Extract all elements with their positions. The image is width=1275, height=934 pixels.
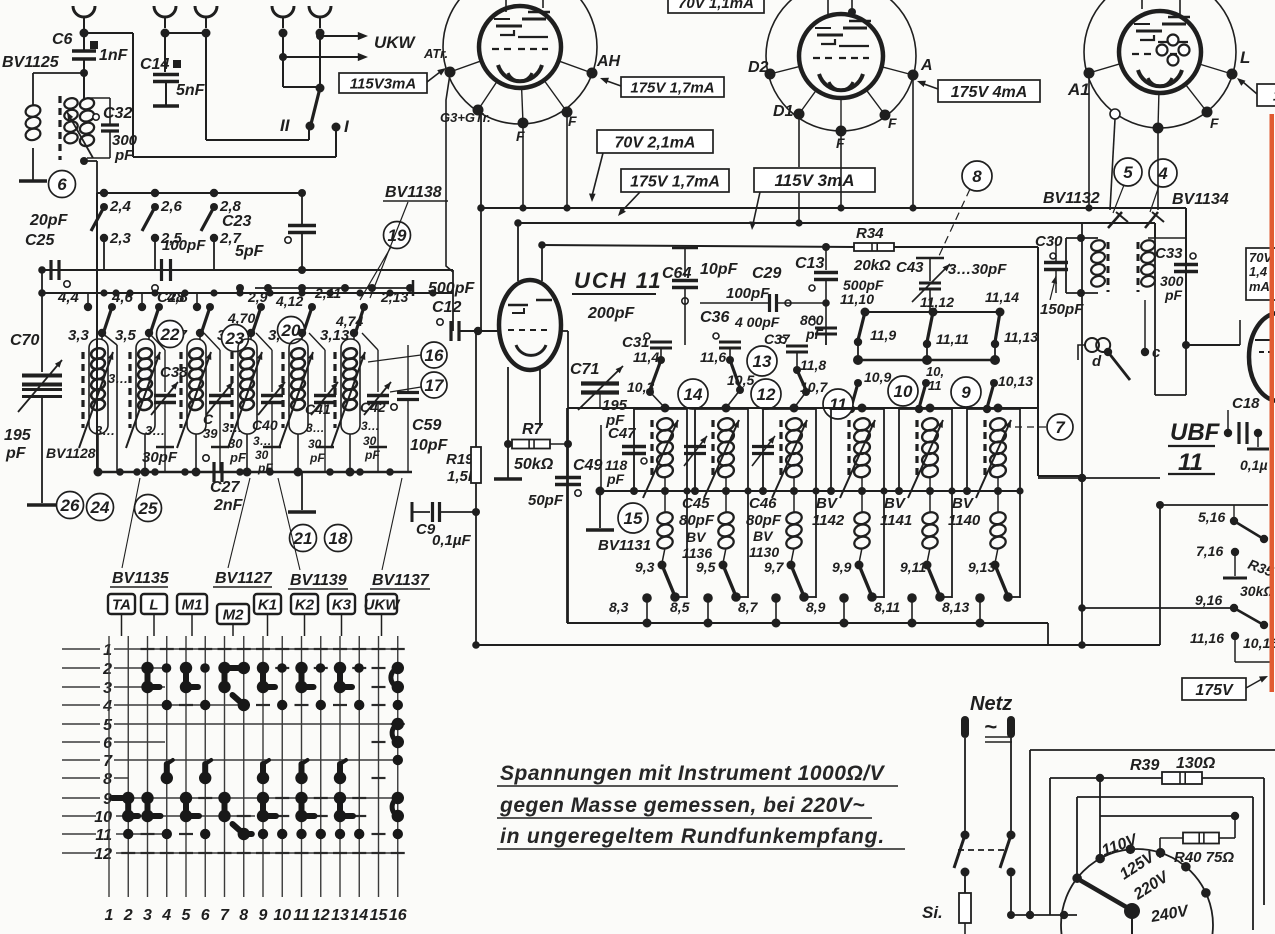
- switch arm band I/II: [311, 88, 320, 124]
- wire x1160 down: [1159, 505, 1161, 645]
- ground stub mid: [301, 472, 303, 510]
- svg-text:11,12: 11,12: [920, 294, 954, 310]
- svg-text:C70: C70: [10, 332, 39, 349]
- matrix contact group bottom col3: [141, 792, 153, 804]
- svg-text:4: 4: [1157, 164, 1168, 183]
- wire UKW arrow 2: [279, 53, 287, 61]
- wire tube1 F2 down: [566, 112, 568, 208]
- matrix contact group bottom UKW: [392, 792, 404, 804]
- arrow 70V2,1 down: [592, 153, 603, 196]
- arrow box to AH pin: [607, 81, 621, 86]
- svg-text:17: 17: [425, 376, 445, 395]
- wire UKW arrow 1: [316, 32, 324, 40]
- svg-text:0,1µ: 0,1µ: [1240, 457, 1268, 473]
- wire 2,7 to bus B: [213, 238, 215, 270]
- wire 11,9 row lower: [858, 359, 995, 362]
- switch 3,5: [155, 303, 163, 311]
- ground below coil: [19, 179, 47, 183]
- svg-text:30: 30: [255, 448, 269, 462]
- svg-text:21: 21: [293, 529, 313, 548]
- svg-text:8,3: 8,3: [609, 599, 629, 615]
- svg-text:K2: K2: [295, 597, 315, 614]
- matrix contact group top col3: [141, 662, 153, 674]
- svg-text:UKW: UKW: [364, 597, 402, 614]
- svg-text:C33: C33: [1155, 245, 1183, 262]
- svg-text:C23: C23: [222, 213, 251, 230]
- svg-text:11,11: 11,11: [936, 331, 969, 347]
- switch contact 2,6: [151, 189, 159, 197]
- svg-text:3…: 3…: [145, 423, 165, 438]
- svg-text:11,8: 11,8: [800, 357, 826, 373]
- leader BV1135: [122, 478, 140, 568]
- svg-text:175V: 175V: [1195, 682, 1234, 699]
- svg-text:C13: C13: [795, 255, 824, 272]
- wire caps down: [660, 348, 662, 360]
- svg-text:Spannungen mit Instrument 1: Spannungen mit Instrument 1000Ω/V: [500, 762, 886, 785]
- svg-text:L: L: [149, 597, 158, 614]
- wire antenna1 to C6: [83, 28, 85, 52]
- capacitor C12 series: [437, 319, 443, 325]
- box 115V 3mA second: [754, 168, 875, 192]
- osc branch BV 1142: [858, 404, 867, 413]
- ground below C70: [27, 503, 57, 507]
- svg-text:C32: C32: [103, 105, 132, 122]
- osc branch BV 1136: [722, 404, 731, 413]
- svg-text:C49: C49: [573, 457, 602, 474]
- wire tube UBF stems: [1239, 320, 1241, 345]
- svg-text:20pF: 20pF: [29, 212, 69, 229]
- svg-text:BV1138: BV1138: [385, 184, 442, 201]
- svg-text:15: 15: [370, 907, 389, 924]
- leader 7 dashed: [1010, 426, 1046, 428]
- wire antenna4 down x283: [282, 33, 284, 87]
- circled 11: [823, 389, 853, 419]
- circled 7: [1047, 414, 1073, 440]
- svg-text:pF: pF: [229, 450, 247, 465]
- svg-text:1141: 1141: [880, 512, 912, 529]
- svg-text:3,5: 3,5: [115, 327, 137, 344]
- circled 10: [888, 376, 918, 406]
- trimmer cap C41: [309, 333, 325, 350]
- svg-text:10,: 10,: [926, 364, 944, 379]
- svg-text:11,9: 11,9: [870, 327, 896, 343]
- svg-text:G3+GTr.: G3+GTr.: [440, 110, 491, 125]
- svg-text:L: L: [1240, 48, 1250, 67]
- leader BV1138: [370, 202, 408, 298]
- svg-text:175V 4mA: 175V 4mA: [951, 84, 1028, 101]
- switch 3,7: [206, 303, 214, 311]
- wire tube3 A1 down: [1088, 73, 1090, 208]
- svg-text:C71: C71: [570, 361, 599, 378]
- band label box TA: [108, 594, 135, 614]
- svg-text:BV1139: BV1139: [290, 572, 347, 589]
- switch arm 2,5: [142, 207, 155, 231]
- svg-text:130Ω: 130Ω: [1176, 755, 1216, 772]
- svg-text:II: II: [280, 116, 291, 135]
- matrix UKW rows5-6 group: [392, 718, 404, 730]
- svg-text:80pF: 80pF: [679, 512, 715, 529]
- circled 19: [384, 222, 411, 249]
- svg-text:pF: pF: [5, 445, 27, 462]
- wire II-path horizontal y140: [206, 139, 309, 141]
- wire x1030: [1029, 750, 1031, 915]
- switch arm 2,7: [201, 207, 214, 231]
- svg-text:2nF: 2nF: [213, 497, 244, 514]
- svg-text:7: 7: [220, 907, 230, 924]
- mid bus y491: [600, 490, 1022, 492]
- svg-text:BV1131: BV1131: [598, 537, 651, 554]
- node I: [332, 123, 341, 132]
- wire BV1134 frame: [1154, 238, 1156, 395]
- matrix contact group bottom col9: [257, 792, 269, 804]
- matrix contact group top M2: [218, 662, 230, 674]
- svg-text:ATr.: ATr.: [423, 46, 448, 61]
- svg-text:3…: 3…: [253, 434, 272, 448]
- circled 25: [135, 495, 162, 522]
- switch arms 10,3 10,5 10,7: [650, 360, 661, 390]
- svg-text:26: 26: [60, 496, 80, 515]
- trimmer cap branch3 C46: [752, 445, 774, 448]
- svg-text:c: c: [1152, 344, 1161, 361]
- wire mains down left: [964, 870, 966, 893]
- svg-text:14: 14: [350, 907, 368, 924]
- matrix contact group bottom M2: [218, 792, 230, 804]
- svg-text:5nF: 5nF: [176, 82, 206, 99]
- svg-text:BV1132: BV1132: [1043, 190, 1100, 207]
- leader 19: [360, 247, 391, 300]
- matrix column lines: [108, 636, 110, 897]
- svg-text:5: 5: [103, 717, 113, 734]
- antenna A5: [309, 6, 331, 17]
- circled 24: [87, 494, 114, 521]
- wire frame y223: [518, 222, 1155, 224]
- matrix row4 dots: [162, 700, 172, 710]
- svg-text:5,16: 5,16: [1198, 509, 1225, 525]
- svg-text:C42: C42: [360, 399, 386, 415]
- svg-text:500pF: 500pF: [428, 280, 475, 297]
- svg-text:8,9: 8,9: [806, 599, 826, 615]
- band label box K2: [291, 594, 318, 614]
- svg-text:BV: BV: [884, 495, 907, 512]
- tube UBF11 envelope right edge: [1249, 313, 1275, 401]
- svg-text:C59: C59: [412, 417, 441, 434]
- switch 3,9: [257, 303, 265, 311]
- svg-text:D1: D1: [773, 103, 794, 120]
- leader 17: [390, 387, 421, 392]
- svg-text:6: 6: [57, 175, 67, 194]
- trimmer cap branch2 C45: [684, 445, 706, 448]
- transformer T-ant secondary coil: [79, 97, 96, 111]
- svg-text:5: 5: [182, 907, 192, 924]
- svg-text:M2: M2: [223, 607, 244, 624]
- tube V2 top stems: [827, 0, 829, 15]
- svg-text:4 00pF: 4 00pF: [734, 314, 780, 330]
- antenna A4: [272, 6, 294, 17]
- svg-text:30: 30: [228, 436, 243, 451]
- switch 3,11: [308, 303, 316, 311]
- transformer arrow: [67, 112, 93, 158]
- tube socket V3 top view: [1084, 0, 1236, 128]
- antenna A3: [195, 6, 217, 17]
- leader 16: [368, 355, 421, 362]
- leader BV1139: [278, 478, 300, 570]
- wire tube2 D1 down: [798, 114, 800, 167]
- svg-text:gegen Masse gemessen, bei: gegen Masse gemessen, bei 220V~: [499, 794, 865, 817]
- band coil branch 6: [350, 329, 358, 337]
- svg-text:11,10: 11,10: [840, 291, 874, 307]
- svg-text:14: 14: [684, 385, 703, 404]
- contact 4,4: [87, 293, 89, 307]
- svg-text:C18: C18: [1232, 395, 1260, 412]
- wire branch1 right side x117: [102, 333, 117, 345]
- switch 3,3: [108, 303, 116, 311]
- wire y797 frame: [1077, 796, 1253, 798]
- wire frame x1155 down: [1154, 223, 1156, 238]
- band label box UKW: [366, 594, 397, 614]
- voltage selector circle: [1061, 849, 1213, 934]
- svg-text:BV: BV: [816, 495, 839, 512]
- osc branch BV 1141: [926, 404, 935, 413]
- svg-text:3…: 3…: [95, 423, 115, 438]
- box right edge cut: [1257, 84, 1275, 106]
- svg-text:11,14: 11,14: [985, 289, 1019, 305]
- svg-text:d: d: [1092, 353, 1102, 370]
- svg-text:1nF: 1nF: [99, 47, 129, 64]
- svg-text:9,5: 9,5: [696, 559, 716, 575]
- wire frame y245: [542, 245, 854, 247]
- box 175V 4mA: [938, 80, 1040, 102]
- svg-text:11,4: 11,4: [633, 349, 659, 365]
- wire coil to ground: [32, 148, 34, 180]
- svg-text:12: 12: [312, 907, 330, 924]
- svg-text:20: 20: [281, 321, 301, 340]
- svg-text:C29: C29: [752, 265, 781, 282]
- wire antenna5 down x320: [319, 33, 321, 88]
- svg-text:C12: C12: [432, 299, 461, 316]
- svg-text:50pF: 50pF: [528, 492, 564, 509]
- svg-text:7: 7: [103, 753, 113, 770]
- svg-text:A1: A1: [1067, 80, 1090, 99]
- tube UCH11 internals: [508, 304, 528, 307]
- svg-text:30pF: 30pF: [142, 449, 178, 466]
- svg-text:2: 2: [102, 661, 112, 678]
- leader BV1137: [382, 478, 402, 570]
- wire I-contact stem: [335, 128, 337, 157]
- matrix cross ticks: [141, 648, 155, 650]
- wire right y470: [1038, 477, 1160, 479]
- matrix row labels: [100, 640, 114, 657]
- wire y408 top of bank: [568, 407, 1038, 409]
- arrow 115V down: [753, 192, 760, 224]
- leader 4: [1150, 186, 1159, 212]
- wire C70 to ground: [41, 398, 43, 503]
- band coil branch 2: [145, 329, 153, 337]
- svg-text:10pF: 10pF: [700, 261, 739, 278]
- tube UCH11 cathode down: [507, 367, 509, 478]
- svg-text:6: 6: [201, 907, 210, 924]
- switch arms 11,9 11,11 11,13: [858, 312, 865, 340]
- svg-text:9,3: 9,3: [635, 559, 655, 575]
- svg-text:F: F: [568, 113, 577, 129]
- svg-text:22: 22: [160, 325, 180, 344]
- svg-text:10,9: 10,9: [864, 369, 891, 385]
- svg-text:BV1127: BV1127: [215, 570, 273, 587]
- svg-text:UBF: UBF: [1170, 419, 1221, 446]
- wire frame right x1038: [1037, 247, 1039, 476]
- wire mains down right: [1010, 872, 1012, 915]
- mains switch: [961, 831, 970, 840]
- orange margin bar: [1270, 114, 1275, 692]
- svg-text:11,16: 11,16: [1190, 630, 1224, 646]
- svg-text:4,74: 4,74: [335, 313, 363, 329]
- wire antenna2-3 link: [165, 32, 206, 34]
- svg-text:10,13: 10,13: [998, 373, 1033, 389]
- svg-text:mA: mA: [1249, 279, 1270, 294]
- bottom frame y645: [476, 644, 1160, 646]
- matrix contact group bottom col11: [295, 792, 307, 804]
- wire transformer top: [83, 95, 85, 100]
- wire to left coil: [33, 72, 84, 74]
- svg-text:5pF: 5pF: [235, 243, 265, 260]
- svg-text:18: 18: [329, 529, 348, 548]
- wire frame right x1186: [1185, 208, 1187, 345]
- svg-text:13: 13: [753, 352, 772, 371]
- svg-text:UKW: UKW: [374, 33, 417, 52]
- circled 18: [325, 525, 352, 552]
- antenna A1: [73, 6, 95, 17]
- box 175V right: [1182, 678, 1246, 700]
- arrow 175V down: [621, 192, 640, 212]
- matrix contact group top col13: [334, 662, 346, 674]
- tube UCH11 stems: [517, 223, 519, 281]
- svg-text:7,16: 7,16: [1196, 543, 1223, 559]
- svg-text:3,3: 3,3: [68, 327, 90, 344]
- svg-text:8,11: 8,11: [874, 599, 900, 615]
- svg-text:M1: M1: [182, 597, 203, 614]
- coil L-ant left: [24, 104, 41, 119]
- svg-text:39: 39: [203, 426, 218, 441]
- tube V1 top stems: [505, 0, 507, 12]
- node d: [1104, 348, 1112, 356]
- wire mid bus ground stem: [599, 491, 601, 528]
- svg-text:11: 11: [293, 907, 310, 924]
- svg-text:20kΩ: 20kΩ: [853, 257, 891, 274]
- svg-text:BV1134: BV1134: [1172, 191, 1229, 208]
- wire tube3 pin down to BV1134 switch: [1157, 128, 1159, 210]
- svg-text:C27: C27: [210, 479, 240, 496]
- svg-text:~: ~: [984, 714, 997, 739]
- wire bus B to C12: [452, 270, 454, 331]
- wire C23 stem: [301, 193, 303, 225]
- svg-text:8: 8: [103, 771, 112, 788]
- svg-text:K3: K3: [332, 597, 352, 614]
- svg-text:30: 30: [308, 437, 322, 451]
- bottom bus y623: [567, 622, 1048, 624]
- box 70V 2,1mA: [597, 130, 713, 153]
- matrix row8 hooks: [161, 772, 173, 784]
- resistor R40 75: [1183, 833, 1219, 844]
- svg-text:4,12: 4,12: [275, 293, 303, 309]
- svg-text:in ungeregeltem Rundfunkempfa: in ungeregeltem Rundfunkempfang.: [500, 825, 885, 848]
- svg-text:BV1135: BV1135: [112, 570, 170, 587]
- wire antenna3 down x206: [205, 33, 207, 140]
- svg-text:UCH 11: UCH 11: [574, 268, 663, 293]
- box 70V 1,1mA (cut top): [668, 0, 764, 13]
- wire I-path vertical x133: [132, 33, 134, 157]
- box 115V3mA: [339, 73, 427, 93]
- svg-text:8: 8: [972, 167, 982, 186]
- wire antenna1 top bus to x133: [84, 32, 133, 34]
- wire frame y208: [481, 207, 1186, 209]
- wire y608 to 9,16: [1082, 607, 1234, 609]
- switch contact 2,4: [100, 189, 108, 197]
- svg-text:pF: pF: [309, 451, 325, 465]
- switch arm d-c: [1108, 352, 1130, 380]
- wire 11,10 row: [865, 311, 1000, 313]
- matrix contact group bottom col5: [180, 792, 192, 804]
- circled 13: [747, 346, 777, 376]
- svg-text:3…: 3…: [108, 371, 128, 386]
- svg-text:Si.: Si.: [922, 903, 943, 922]
- wire tube left grid: [481, 330, 500, 332]
- svg-text:1: 1: [103, 642, 112, 659]
- wire x567 left side of bank: [566, 408, 568, 623]
- svg-text:3…30pF: 3…30pF: [948, 261, 1007, 278]
- coil d-c small: [1085, 338, 1099, 352]
- wire x1264 right: [1263, 778, 1265, 905]
- mains plug left: [961, 716, 969, 738]
- node below C6: [80, 69, 88, 77]
- svg-text:C38: C38: [160, 364, 188, 381]
- svg-text:4,6: 4,6: [111, 289, 134, 306]
- trimmer cap C3830pF: [149, 333, 165, 350]
- node c: [1141, 348, 1149, 356]
- selector taps: [1072, 873, 1082, 883]
- svg-text:2: 2: [123, 907, 133, 924]
- svg-text:115V3mA: 115V3mA: [350, 75, 416, 92]
- bus C dots: [100, 289, 107, 296]
- tube socket V1 UCH11 top view: [443, 0, 597, 124]
- circled 6: [49, 171, 76, 198]
- svg-text:150pF: 150pF: [1040, 301, 1084, 318]
- sub-bus y288: [255, 287, 413, 289]
- svg-text:175V 1,7mA: 175V 1,7mA: [630, 79, 714, 96]
- transformer T-ant primary dashes: [58, 96, 61, 160]
- wire x1082 down: [1081, 223, 1083, 645]
- svg-text:10: 10: [894, 382, 913, 401]
- svg-text:BV1125: BV1125: [2, 54, 60, 71]
- wire tube2 A down: [912, 75, 914, 208]
- svg-text:R7: R7: [522, 421, 544, 438]
- svg-text:1,4: 1,4: [1249, 264, 1268, 279]
- matrix contact group top col5: [180, 662, 192, 674]
- wire I-path horizontal y157: [133, 156, 336, 158]
- svg-text:C40: C40: [252, 417, 278, 433]
- svg-text:9,7: 9,7: [764, 559, 785, 575]
- wire y816: [1100, 815, 1235, 817]
- svg-text:BV: BV: [952, 495, 975, 512]
- circled 21: [290, 525, 317, 552]
- matrix contact group top UKW: [392, 662, 404, 674]
- wire x1048 stub: [1047, 623, 1049, 645]
- svg-text:9,13: 9,13: [968, 559, 995, 575]
- wire 2,3 to bus B: [103, 238, 105, 270]
- svg-text:BV1137: BV1137: [372, 572, 430, 589]
- svg-text:3: 3: [103, 680, 112, 697]
- svg-text:AH: AH: [596, 53, 621, 70]
- svg-text:3…: 3…: [361, 419, 380, 433]
- matrix contact group bottom col13: [334, 792, 346, 804]
